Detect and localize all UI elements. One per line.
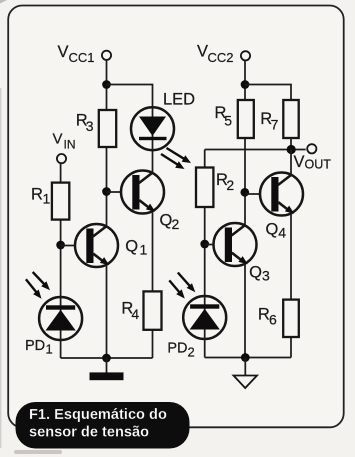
svg-text:F1. Esquemático do: F1. Esquemático do — [29, 407, 167, 423]
wire ground rail right — [205, 357, 291, 359]
wire Q2 emitter through R4 to ground rail — [152, 212, 154, 358]
junction R2 rail / Q3 base — [200, 240, 209, 249]
svg-text:V: V — [197, 43, 208, 61]
label VCC1 — [58, 43, 95, 65]
svg-text:PD: PD — [167, 341, 187, 357]
junction VCC2 rail split — [241, 80, 250, 89]
node VIN terminal — [57, 154, 66, 163]
label VCC2 — [197, 43, 234, 66]
label LED — [163, 91, 195, 109]
label Q3 — [249, 264, 270, 284]
node VCC2 terminal — [241, 51, 250, 60]
wire VCC2 through R5 to Q3 collector — [244, 60, 246, 225]
junction R5 rail / Q4 base — [240, 188, 249, 197]
svg-text:5: 5 — [224, 113, 232, 129]
label R6 — [258, 306, 277, 328]
wire junction to LED anode down to Q2 collector — [107, 85, 153, 174]
resistor R1 — [52, 183, 69, 220]
svg-text:4: 4 — [131, 306, 139, 322]
ground triangle symbol — [234, 376, 258, 389]
wire Q1 base lead — [61, 245, 88, 247]
title box F1 — [16, 402, 190, 449]
label PD2 — [167, 341, 194, 360]
junction R1 / Q1 base — [56, 241, 65, 250]
wire ground rail left — [61, 357, 153, 359]
svg-text:1: 1 — [140, 242, 148, 258]
svg-text:3: 3 — [262, 268, 270, 284]
svg-text:1: 1 — [43, 191, 51, 207]
svg-text:Q: Q — [266, 221, 279, 239]
transistor Q4 — [260, 173, 303, 216]
PD2 light arrow 2 — [169, 280, 185, 298]
wire junction to R7 — [245, 85, 291, 101]
transistor Q3 — [214, 223, 257, 266]
label PD1 — [25, 338, 53, 357]
svg-text:LED: LED — [163, 91, 195, 109]
svg-text:6: 6 — [269, 312, 277, 328]
resistor R6 — [283, 300, 299, 337]
wire VIN through R1 to PD1 — [60, 163, 62, 297]
wire Q4 emitter through R6 to ground rail — [290, 214, 292, 358]
LED light arrow 1 — [167, 148, 192, 163]
photodiode PD2 — [183, 296, 226, 358]
PD1 light arrow 2 — [26, 279, 42, 299]
wire to ground triangle — [244, 358, 246, 376]
wire VCC1 to R3 to Q1 collector — [106, 60, 108, 228]
junction R7 / Q4 collector / VOUT — [287, 145, 296, 154]
photodiode PD1 — [39, 297, 82, 358]
resistor R7 — [283, 100, 298, 138]
svg-text:PD: PD — [25, 338, 45, 354]
svg-text:CC1: CC1 — [69, 50, 95, 65]
resistor R2 — [196, 168, 213, 208]
label R3 — [76, 112, 94, 135]
junction ground rail left — [102, 354, 111, 363]
svg-text:Q: Q — [249, 264, 262, 282]
label R2 — [216, 171, 234, 193]
svg-text:4: 4 — [278, 225, 286, 241]
junction ground rail right — [241, 353, 250, 362]
wire Q3 base lead — [205, 244, 227, 246]
svg-text:V: V — [58, 43, 69, 61]
svg-text:V: V — [294, 153, 305, 171]
resistor R5 — [238, 100, 254, 138]
wire Q2 base lead — [107, 191, 135, 193]
resistor R3 — [99, 110, 116, 147]
svg-text:2: 2 — [226, 177, 234, 193]
svg-text:3: 3 — [86, 118, 94, 134]
label Q1 — [125, 238, 147, 258]
svg-text:2: 2 — [172, 216, 180, 232]
svg-text:sensor de tensão: sensor de tensão — [29, 425, 149, 441]
svg-text:R: R — [31, 186, 43, 204]
PD2 light arrow 1 — [178, 273, 196, 293]
wire Q4 collector to VOUT junction — [290, 150, 292, 177]
svg-text:CC2: CC2 — [208, 50, 234, 65]
wire Q4 base lead — [245, 193, 273, 195]
wire Q3 emitter to ground rail — [244, 265, 246, 358]
label VIN — [53, 131, 76, 152]
label Q2 — [160, 212, 180, 233]
svg-text:V: V — [53, 131, 63, 148]
wire to ground bar — [106, 358, 108, 373]
junction R3 rail / Q2 base — [102, 187, 111, 196]
resistor R4 — [144, 291, 162, 329]
transistor Q1 — [75, 224, 118, 267]
ground bar symbol — [90, 372, 124, 380]
label R4 — [121, 300, 139, 323]
junction at VCC1 rail split — [102, 80, 111, 89]
node VCC1 terminal — [102, 51, 111, 60]
wire VOUT rail — [205, 149, 306, 151]
label VOUT — [294, 153, 332, 172]
svg-text:7: 7 — [271, 117, 279, 133]
LED D1 — [131, 107, 174, 150]
wire R7 to VOUT node — [290, 138, 292, 150]
svg-text:Q: Q — [125, 238, 138, 256]
node VOUT terminal — [307, 144, 316, 153]
svg-text:OUT: OUT — [305, 158, 332, 172]
label R1 — [31, 186, 51, 207]
svg-text:2: 2 — [188, 345, 195, 360]
label R5 — [215, 104, 233, 129]
wire R2 branch through PD2 — [204, 150, 206, 297]
svg-text:IN: IN — [64, 138, 76, 152]
wire Q1 emitter to ground rail — [106, 266, 108, 359]
svg-text:1: 1 — [46, 342, 53, 357]
transistor Q2 — [121, 171, 164, 214]
LED light arrow 2 — [161, 154, 185, 169]
PD1 light arrow 1 — [33, 272, 50, 290]
label Q4 — [266, 221, 287, 241]
label R7 — [260, 110, 278, 133]
